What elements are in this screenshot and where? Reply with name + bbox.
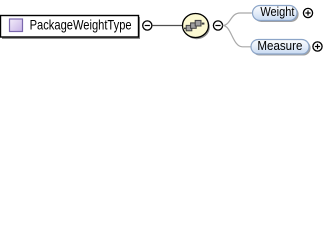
- svg-text:Weight: Weight: [260, 5, 294, 19]
- wire to Weight (curve): [223, 13, 252, 26]
- element Measure: [251, 40, 309, 55]
- sequence compositor : shadow: [184, 15, 210, 39]
- svg-text:PackageWeightType: PackageWeightType: [30, 16, 132, 32]
- svg-text:Measure: Measure: [257, 39, 302, 53]
- sequence icon (three squares staircase): [184, 20, 204, 30]
- collapse handle (minus) left of sequence: [143, 21, 152, 30]
- complexType box PackageWeightType: [1, 16, 139, 38]
- complexType icon: [10, 19, 23, 32]
- complexType box PackageWeightType : shadow: [2, 17, 140, 39]
- expand handle (plus) for Weight: [303, 8, 312, 17]
- element Weight : shadow: [254, 7, 299, 22]
- element Weight: [253, 6, 298, 21]
- element Measure : shadow: [252, 41, 310, 56]
- wire box to sequence: [152, 25, 183, 27]
- wire to Measure (curve): [223, 26, 252, 47]
- collapse handle (minus) right of sequence: [213, 21, 222, 30]
- expand handle (plus) for Measure: [313, 42, 322, 51]
- sequence compositor oval: [183, 14, 209, 38]
